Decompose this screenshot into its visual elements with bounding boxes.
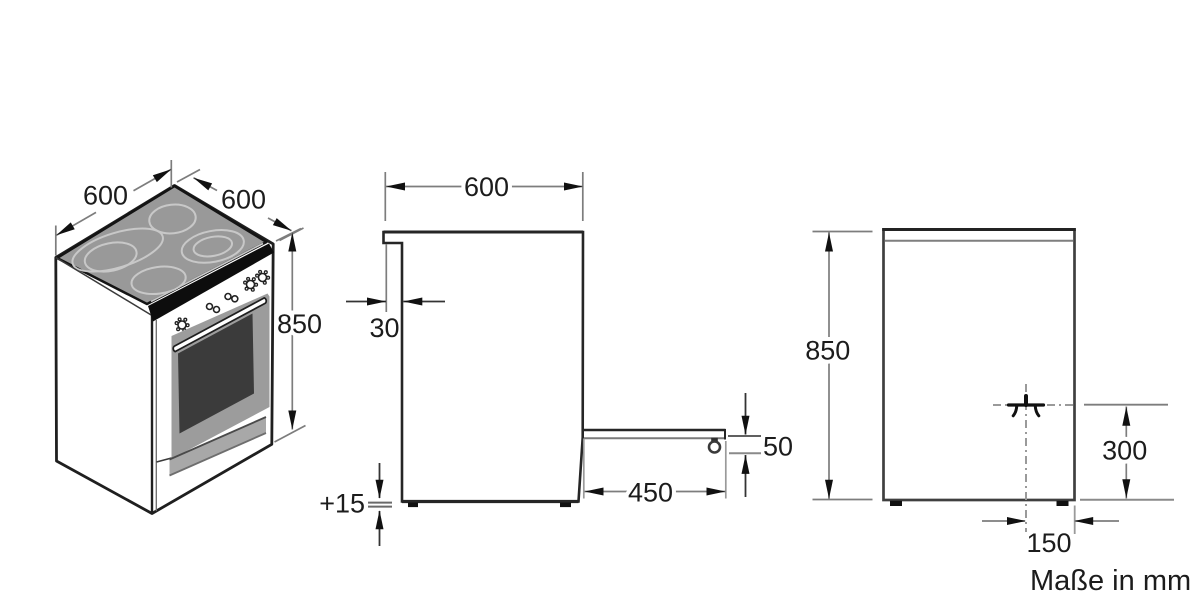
dimension 450 line xyxy=(585,491,726,493)
svg-text:850: 850 xyxy=(805,336,850,366)
control panel knob large 2 xyxy=(244,278,258,292)
dimension 150 extension line xyxy=(1074,506,1076,535)
connection centerline vertical dash-dot xyxy=(1025,384,1027,532)
svg-text:+15: +15 xyxy=(319,489,365,519)
dimension +15 arrows xyxy=(379,463,381,498)
dimension 850 iso line xyxy=(291,233,293,430)
door handle ring xyxy=(709,442,720,453)
dimension +15 level lines xyxy=(368,502,392,504)
svg-text:30: 30 xyxy=(369,313,399,343)
rear top edge xyxy=(882,228,1076,231)
svg-text:600: 600 xyxy=(83,181,128,211)
rear foot right xyxy=(1057,501,1069,506)
dimension 30 extension line xyxy=(385,244,387,312)
side top edge thick xyxy=(384,231,584,234)
open oven door underside xyxy=(584,437,725,439)
control panel knob large 3 xyxy=(256,271,270,285)
svg-text:Maße in mm: Maße in mm xyxy=(1030,565,1191,597)
oven door window xyxy=(178,314,254,434)
dimension 600 left extension lines xyxy=(55,226,57,256)
dimension 600 top line xyxy=(386,186,583,188)
burner back xyxy=(148,202,197,235)
dimension 50 arrows xyxy=(745,393,747,435)
hob glass top xyxy=(57,186,267,304)
svg-text:300: 300 xyxy=(1102,436,1147,466)
svg-text:600: 600 xyxy=(464,172,509,202)
control panel small button 3 xyxy=(225,294,231,300)
side bottom edge thick xyxy=(402,500,579,503)
svg-text:600: 600 xyxy=(221,185,266,215)
oven door handle xyxy=(173,298,266,352)
open oven door end xyxy=(724,429,726,440)
glass inner highlight line xyxy=(151,244,263,302)
control panel knob large 1 xyxy=(175,318,189,332)
front-left vertical edge of front face xyxy=(151,316,153,514)
side body outline xyxy=(384,232,584,502)
connection centerline horizontal dash-dot xyxy=(993,404,1077,406)
burner left outer oval xyxy=(68,220,168,281)
dimension 50 extension lines xyxy=(728,435,761,437)
dimension 850 iso extension lines xyxy=(276,229,301,242)
top face front-left rim edge xyxy=(56,258,152,316)
dimension 300 line xyxy=(1125,407,1127,499)
dimension 30 arrows xyxy=(346,301,386,303)
drawer gap line xyxy=(170,417,267,460)
burner left inner xyxy=(82,238,139,276)
rear body outline xyxy=(884,230,1075,501)
dimension 150 arrows xyxy=(982,520,1025,522)
dimension 600 right extension lines xyxy=(177,170,200,183)
drawer bottom line xyxy=(170,433,267,476)
side foot left xyxy=(408,503,418,508)
burner right outer xyxy=(179,225,247,267)
door bottom step line xyxy=(157,458,172,462)
oven door frame xyxy=(172,294,270,460)
control panel small button 4 xyxy=(232,296,238,302)
dimension 600 right line xyxy=(194,178,218,191)
dimension 850 rear extension lines xyxy=(813,231,873,233)
dimension 300 extension lines xyxy=(1084,404,1168,406)
svg-text:850: 850 xyxy=(277,309,322,339)
burner right inner xyxy=(192,233,234,259)
control panel small button 1 xyxy=(207,304,213,310)
svg-text:150: 150 xyxy=(1026,528,1071,558)
svg-text:450: 450 xyxy=(628,478,673,508)
dimension 600 top extension lines xyxy=(384,172,386,221)
burner front xyxy=(130,263,188,297)
dimension 850 rear line xyxy=(828,232,830,499)
dimension 600 left line xyxy=(56,212,96,235)
cooker body silhouette xyxy=(56,186,273,514)
side foot right xyxy=(560,503,571,508)
front face inner edge line xyxy=(155,320,157,511)
rear top band line xyxy=(885,240,1073,242)
dimension 450 extension lines xyxy=(583,439,585,499)
control panel small button 2 xyxy=(214,307,220,313)
rear foot left xyxy=(890,501,902,506)
drawer front xyxy=(170,417,267,476)
door handle mount xyxy=(711,438,718,442)
open oven door top xyxy=(583,429,726,431)
svg-text:50: 50 xyxy=(763,432,793,462)
connection symbol xyxy=(1009,396,1044,416)
hob front edge black band xyxy=(148,244,274,322)
